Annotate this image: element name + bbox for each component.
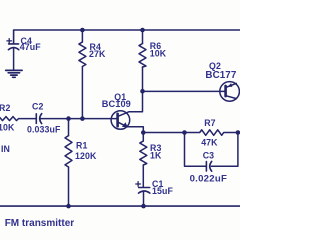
svg-text:IN: IN: [1, 144, 10, 154]
svg-text:FM transmitter: FM transmitter: [5, 218, 75, 229]
node R7 left: [182, 130, 187, 135]
svg-text:C2: C2: [32, 102, 43, 112]
wire collector Q1 to node: [118, 91, 143, 116]
svg-text:0.033uF: 0.033uF: [27, 125, 61, 135]
node C1 bottom: [141, 204, 146, 209]
svg-text:47K: 47K: [201, 138, 218, 148]
resistor R6: [139, 30, 146, 91]
capacitor C3: [206, 161, 211, 171]
svg-text:BC109: BC109: [102, 99, 131, 109]
wire base of Q1: [40, 118, 118, 120]
ground: [6, 70, 22, 77]
capacitor C2: [36, 114, 41, 124]
node R4 top: [80, 28, 85, 33]
capacitor C1: [136, 182, 150, 206]
arrow emitter Q1: [122, 122, 128, 127]
svg-text:10K: 10K: [0, 123, 15, 133]
wire emitter node to R7 network: [143, 132, 184, 134]
capacitor C4: [7, 39, 19, 70]
wire base of Q2: [143, 90, 226, 92]
svg-text:27K: 27K: [89, 49, 106, 59]
resistor R2: [0, 117, 36, 121]
wire bottom ground rail: [0, 205, 240, 207]
node R1 bottom: [66, 204, 71, 209]
node R7 right: [236, 130, 241, 135]
svg-text:0.022uF: 0.022uF: [190, 174, 227, 185]
svg-text:R1: R1: [76, 140, 87, 150]
node collector Q1: [140, 89, 145, 94]
wire emitter Q1 to node: [127, 127, 143, 133]
resistor R7: [185, 130, 238, 136]
svg-text:15uF: 15uF: [152, 186, 173, 196]
resistor R3: [140, 133, 147, 188]
wire C3 loop: [185, 133, 238, 167]
transistor Q1: [111, 111, 130, 130]
svg-text:120K: 120K: [75, 151, 97, 161]
node R1 base: [66, 116, 71, 121]
svg-text:47uF: 47uF: [20, 42, 41, 52]
node emitter Q1: [141, 130, 146, 135]
svg-text:10K: 10K: [150, 49, 167, 59]
wire top supply rail: [14, 30, 240, 44]
svg-text:R7: R7: [204, 118, 215, 128]
svg-text:C3: C3: [203, 150, 214, 160]
svg-text:BC177: BC177: [205, 70, 236, 81]
arrow emitter Q2: [228, 83, 233, 87]
resistor R4: [79, 30, 86, 119]
svg-text:1K: 1K: [150, 150, 162, 160]
svg-text:R2: R2: [0, 103, 10, 113]
node R6 top: [140, 28, 145, 33]
resistor R1: [65, 119, 72, 207]
transistor Q2: [220, 82, 240, 102]
node R4 base: [80, 116, 85, 121]
